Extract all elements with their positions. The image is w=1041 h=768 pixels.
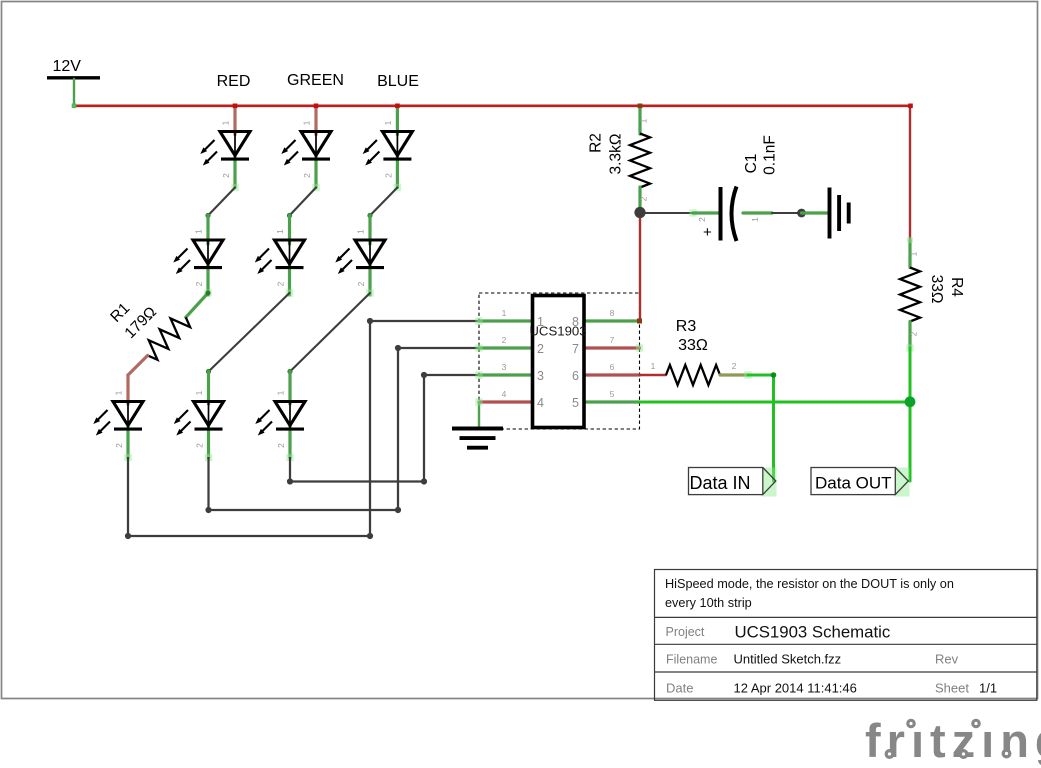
svg-text:Data IN: Data IN — [690, 473, 751, 493]
svg-text:1: 1 — [651, 361, 656, 371]
svg-text:+: + — [703, 224, 712, 241]
svg-text:1: 1 — [537, 315, 544, 329]
svg-text:0.1nF: 0.1nF — [762, 135, 779, 175]
svg-text:Date: Date — [666, 681, 693, 696]
svg-text:2: 2 — [537, 342, 544, 356]
svg-text:2: 2 — [909, 331, 919, 336]
svg-text:UCS1903 Schematic: UCS1903 Schematic — [735, 623, 891, 642]
svg-text:1: 1 — [750, 217, 760, 222]
svg-text:33Ω: 33Ω — [928, 275, 945, 304]
svg-text:1: 1 — [639, 118, 649, 123]
svg-text:2: 2 — [732, 361, 737, 371]
svg-text:GREEN: GREEN — [287, 72, 344, 89]
svg-text:1: 1 — [502, 308, 507, 318]
svg-text:8: 8 — [610, 308, 615, 318]
svg-text:R3: R3 — [676, 318, 697, 335]
svg-text:6: 6 — [610, 362, 615, 372]
svg-text:5: 5 — [572, 396, 579, 410]
svg-text:3: 3 — [537, 369, 544, 383]
svg-text:3: 3 — [502, 362, 507, 372]
svg-text:RED: RED — [217, 73, 251, 90]
svg-text:33Ω: 33Ω — [678, 337, 708, 354]
svg-text:Untitled Sketch.fzz: Untitled Sketch.fzz — [734, 652, 842, 667]
svg-text:7: 7 — [572, 342, 579, 356]
svg-text:2: 2 — [639, 196, 649, 201]
svg-text:HiSpeed mode, the resistor on: HiSpeed mode, the resistor on the DOUT i… — [665, 577, 954, 591]
svg-text:7: 7 — [610, 335, 615, 345]
svg-text:Rev: Rev — [935, 652, 959, 667]
svg-text:Data OUT: Data OUT — [815, 474, 892, 493]
svg-text:3.3kΩ: 3.3kΩ — [608, 134, 625, 175]
svg-text:Filename: Filename — [666, 653, 717, 667]
svg-text:Sheet: Sheet — [935, 681, 969, 696]
svg-text:5: 5 — [610, 389, 615, 399]
svg-text:12V: 12V — [53, 58, 82, 75]
svg-text:1/1: 1/1 — [979, 681, 997, 696]
svg-text:2: 2 — [502, 335, 507, 345]
svg-text:12 Apr 2014 11:41:46: 12 Apr 2014 11:41:46 — [734, 681, 857, 696]
svg-text:R4: R4 — [948, 277, 965, 297]
svg-text:every 10th strip: every 10th strip — [665, 596, 752, 610]
svg-text:R2: R2 — [588, 133, 605, 153]
svg-text:1: 1 — [909, 251, 919, 256]
svg-text:Project: Project — [666, 625, 705, 639]
svg-text:2: 2 — [697, 217, 707, 222]
svg-text:4: 4 — [502, 389, 507, 399]
svg-text:C1: C1 — [743, 154, 760, 174]
svg-text:BLUE: BLUE — [377, 73, 419, 90]
svg-text:8: 8 — [572, 315, 579, 329]
svg-text:6: 6 — [572, 369, 579, 383]
svg-text:4: 4 — [537, 396, 544, 410]
svg-text:frıtzıng: frıtzıng — [865, 714, 1041, 767]
